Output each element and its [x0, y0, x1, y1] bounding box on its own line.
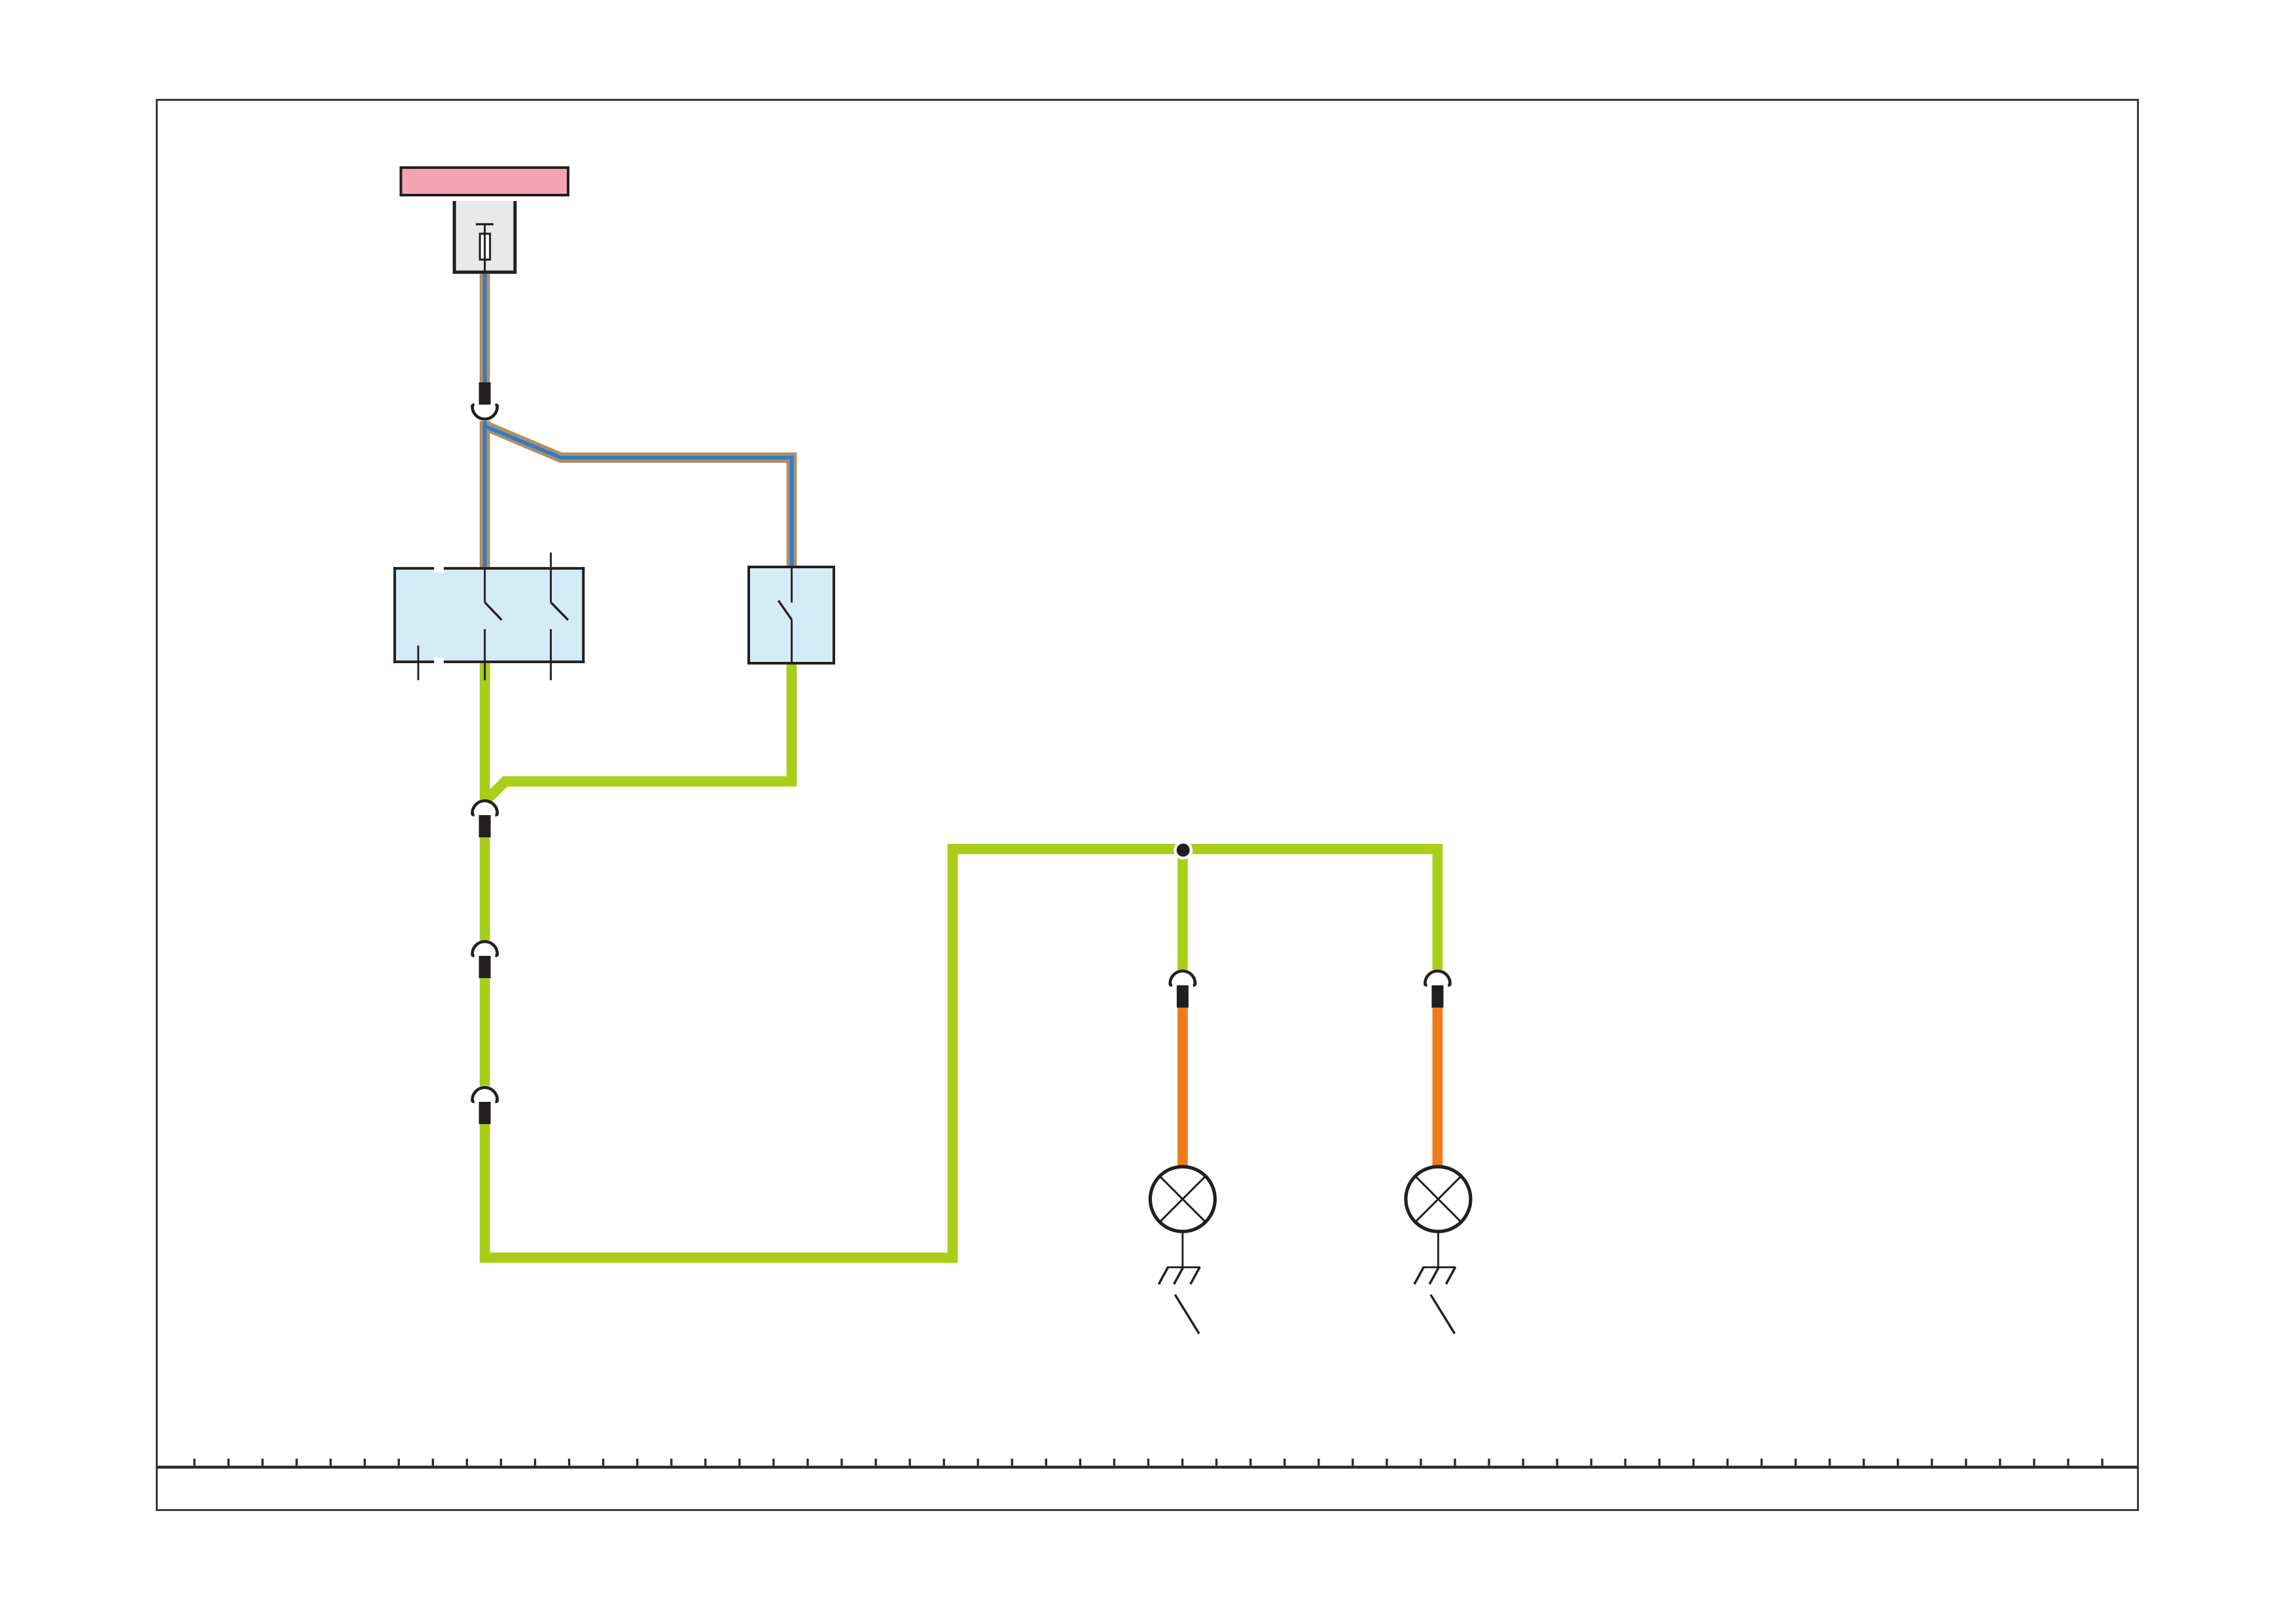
- green wire: long run to lamps: [485, 849, 1438, 1258]
- right switch box F: fill: [749, 567, 834, 663]
- junction node dot: [1174, 841, 1193, 860]
- fuse strip S (pink bus bar): [401, 168, 569, 195]
- left box border gap notches: [434, 567, 444, 573]
- green wire: right box down and merge left: [486, 663, 792, 801]
- lamp L (left): [1150, 1167, 1215, 1231]
- right switch box F: border: [749, 567, 834, 663]
- lamp M stem: [1437, 1231, 1439, 1267]
- ground left: [1158, 1267, 1200, 1285]
- wire brown/blue: fuse to connector: [480, 274, 490, 382]
- orange wire to left lamp: [1177, 1008, 1188, 1166]
- connector C3: [473, 1087, 497, 1124]
- connector C2: [473, 941, 497, 978]
- connector C5 (right lamp): [1425, 971, 1450, 1008]
- left box switch 1: [485, 568, 502, 680]
- left switch box E: border with gaps: [393, 567, 584, 663]
- connector C4 (left lamp): [1170, 971, 1195, 1008]
- connector T2a: [473, 382, 497, 419]
- wire brown/blue: branch to right switch box: [485, 426, 792, 567]
- green wire: left box to connector C1: [480, 663, 490, 799]
- left box switch 2: [551, 553, 568, 680]
- left switch box E: fill: [393, 567, 584, 663]
- lamp L stem: [1181, 1231, 1183, 1267]
- ground continuation slash left: [1175, 1295, 1199, 1334]
- fuse F1: [476, 225, 493, 271]
- wire brown/blue: junction down to left switch box: [480, 421, 490, 567]
- ground continuation slash right: [1431, 1295, 1455, 1334]
- orange wire to right lamp: [1433, 1008, 1443, 1166]
- ruler line: [157, 1466, 2138, 1469]
- green wire: branch at junction to left lamp: [1177, 850, 1188, 970]
- lamp M (right): [1406, 1167, 1471, 1231]
- left box pin cross: [418, 646, 420, 680]
- right box switch: [778, 567, 791, 664]
- green wire seg2: [480, 837, 490, 940]
- ruler tick marks: [194, 1459, 2102, 1466]
- fuse holder box: [454, 201, 515, 272]
- ground right: [1414, 1267, 1456, 1285]
- green wire seg3: [480, 978, 490, 1086]
- connector C1: [473, 801, 497, 837]
- page border frame: [157, 100, 2138, 1510]
